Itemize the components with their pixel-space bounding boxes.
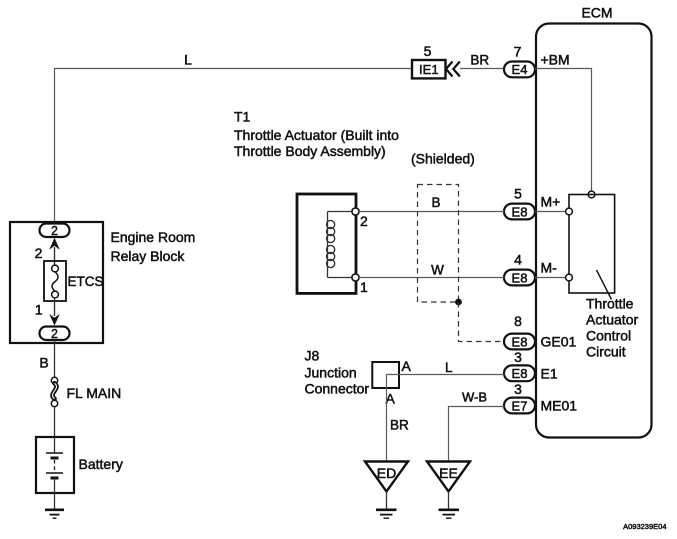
fusible link FL MAIN top circle — [51, 377, 57, 383]
ECM outline — [536, 24, 652, 438]
wire L: J8 to E8 pin 3 (E1) — [387, 374, 505, 376]
svg-text:B: B — [431, 195, 440, 210]
svg-text:FL MAIN: FL MAIN — [67, 385, 122, 401]
battery plate long (bottom) — [46, 472, 63, 474]
throttle actuator T1 body box — [297, 194, 356, 293]
wire FL MAIN to battery — [54, 407, 56, 437]
up arrow into cavity 2 — [49, 238, 60, 250]
actuator coil vertical lead — [327, 212, 329, 278]
ground symbol (ED) — [376, 510, 397, 518]
battery bottom lead to ground — [54, 478, 56, 509]
svg-text:EE: EE — [439, 465, 458, 481]
svg-text:3: 3 — [514, 349, 522, 365]
svg-text:E1: E1 — [541, 365, 558, 381]
svg-text:8: 8 — [514, 313, 522, 329]
battery plate short thick (top) — [51, 457, 59, 460]
battery top lead — [54, 437, 56, 453]
svg-text:Connector: Connector — [305, 381, 370, 397]
svg-text:B: B — [39, 355, 48, 371]
connector E7 pin 3 (ME01) — [504, 398, 535, 414]
svg-text:L: L — [445, 360, 453, 375]
svg-text:5: 5 — [514, 186, 522, 202]
svg-text:ED: ED — [377, 465, 396, 481]
battery box — [36, 437, 74, 493]
fusible link FL MAIN bottom circle — [51, 400, 57, 406]
terminal 2 circle of actuator — [352, 208, 359, 215]
connector E8 pin 5 (M+) — [504, 204, 535, 220]
wire W: actuator pin 1 to E8 pin 4 — [359, 277, 505, 279]
svg-text:1: 1 — [360, 279, 368, 295]
svg-text:M-: M- — [541, 260, 558, 276]
wire inside relay block (upper) — [54, 247, 56, 266]
svg-text:W: W — [431, 263, 444, 278]
shield drain dashed wire to E8 pin 8 — [459, 302, 504, 342]
wire ED triangle to ground — [386, 492, 388, 510]
terminal circle M- on control circuit box — [566, 274, 573, 281]
svg-text:Actuator: Actuator — [586, 312, 638, 328]
wire B: relay block to FL MAIN — [54, 340, 56, 377]
svg-text:Battery: Battery — [79, 456, 123, 472]
svg-text:E8: E8 — [512, 204, 528, 219]
fusible link wavy element — [52, 383, 56, 398]
svg-text:Throttle Body Assembly): Throttle Body Assembly) — [234, 143, 386, 159]
svg-text:Circuit: Circuit — [586, 344, 626, 360]
svg-text:ECM: ECM — [581, 5, 612, 21]
chevron pair (connector mate symbol) at IE1 — [446, 62, 460, 77]
svg-text:2: 2 — [51, 224, 58, 238]
svg-text:J8: J8 — [305, 348, 320, 364]
junction connector IE1 box — [412, 60, 446, 78]
svg-text:2: 2 — [360, 213, 368, 229]
wire inside ECM: M- to control circuit — [535, 277, 566, 279]
svg-text:5: 5 — [424, 43, 432, 59]
svg-text:BR: BR — [470, 53, 489, 68]
terminal circle on top of control circuit box — [588, 191, 595, 198]
svg-text:Junction: Junction — [305, 365, 357, 381]
svg-text:E8: E8 — [512, 366, 528, 381]
svg-text:E8: E8 — [512, 334, 528, 349]
wire L: horizontal run from relay block feed to IE1 — [54, 68, 412, 70]
wire inside ECM: M+ to control circuit — [535, 211, 566, 213]
svg-text:A093239E04: A093239E04 — [623, 522, 666, 531]
wire L: vertical drop to engine room relay block — [54, 68, 56, 224]
svg-text:GE01: GE01 — [541, 334, 577, 350]
connector E8 pin 3 (E1) — [504, 365, 535, 381]
svg-text:(Shielded): (Shielded) — [411, 151, 475, 167]
svg-text:T1: T1 — [234, 109, 251, 125]
svg-text:+BM: +BM — [541, 52, 570, 68]
connector E4 pin 7 (+BM) — [504, 62, 535, 78]
svg-text:E7: E7 — [512, 398, 528, 413]
down arrow into cavity 2 — [49, 314, 60, 326]
wire inside relay block (lower) — [54, 297, 56, 316]
motor coil windings — [327, 220, 335, 267]
terminal 1 circle of actuator — [352, 274, 359, 281]
pointer line to label — [597, 270, 612, 300]
svg-text:W-B: W-B — [462, 390, 487, 405]
engine room relay block box — [10, 222, 103, 343]
shield dashed box — [418, 185, 459, 303]
shield junction dot — [455, 299, 462, 306]
fusible link ribbon highlight — [52, 383, 56, 398]
throttle actuator control circuit box (inside ECM) — [569, 195, 615, 294]
wire BR: J8 down to ED ground — [386, 375, 388, 463]
svg-text:2: 2 — [35, 245, 43, 261]
ground point triangle EE — [427, 462, 470, 492]
fuse bottom terminal circle — [52, 291, 59, 298]
label Throttle Actuator Control Circuit — [586, 296, 638, 360]
svg-text:BR: BR — [390, 418, 409, 433]
svg-text:E4: E4 — [512, 62, 528, 77]
svg-text:2: 2 — [51, 327, 58, 341]
label J8 Junction Connector — [305, 348, 370, 397]
svg-text:M+: M+ — [541, 194, 561, 210]
actuator internal bottom lead to pin 1 — [328, 277, 356, 279]
svg-text:ETCS: ETCS — [68, 274, 104, 289]
wire EE triangle to ground — [448, 492, 450, 510]
label T1 Throttle Actuator — [234, 109, 399, 160]
ground point triangle ED — [365, 462, 408, 492]
svg-text:Relay Block: Relay Block — [111, 248, 186, 264]
svg-text:A: A — [402, 358, 412, 374]
svg-text:1: 1 — [35, 302, 43, 318]
wire W-B: E7 pin 3 to EE ground — [449, 407, 505, 463]
fuse element wavy line — [52, 272, 58, 291]
svg-text:4: 4 — [514, 252, 522, 268]
junction connector J8 box — [372, 362, 399, 388]
fuse ETCS box — [44, 261, 66, 301]
connector E8 pin 8 (GE01) — [504, 334, 535, 350]
ground symbol (EE) — [439, 510, 460, 518]
connector E8 pin 4 (M-) — [504, 270, 535, 286]
fuse top terminal circle — [52, 265, 59, 272]
relay block bottom cavity oval 2 — [40, 327, 70, 342]
svg-text:ME01: ME01 — [541, 398, 578, 414]
wire B: actuator pin 2 to E8 pin 5 — [359, 211, 505, 213]
svg-text:3: 3 — [514, 381, 522, 397]
terminal circle M+ on control circuit box — [566, 208, 573, 215]
svg-text:Throttle: Throttle — [586, 296, 634, 312]
battery plate long (top) — [46, 452, 63, 454]
label Engine Room Relay Block — [111, 229, 196, 264]
svg-text:Engine Room: Engine Room — [111, 229, 196, 245]
wire inside ECM: +BM feed to control circuit — [535, 69, 592, 192]
svg-text:Control: Control — [586, 328, 631, 344]
battery plate short thick (bottom) — [51, 477, 59, 480]
svg-text:L: L — [184, 52, 192, 68]
svg-text:Throttle Actuator (Built into: Throttle Actuator (Built into — [234, 127, 399, 143]
relay block top cavity oval 2 — [40, 224, 70, 239]
battery dashed center link — [54, 460, 56, 471]
actuator internal top lead to pin 2 — [328, 211, 356, 213]
svg-text:7: 7 — [514, 44, 522, 60]
ground symbol (battery) — [45, 510, 64, 518]
svg-text:IE1: IE1 — [419, 62, 439, 77]
svg-text:E8: E8 — [512, 270, 528, 285]
wire BR: IE1 to ECM connector E4 — [460, 68, 505, 70]
